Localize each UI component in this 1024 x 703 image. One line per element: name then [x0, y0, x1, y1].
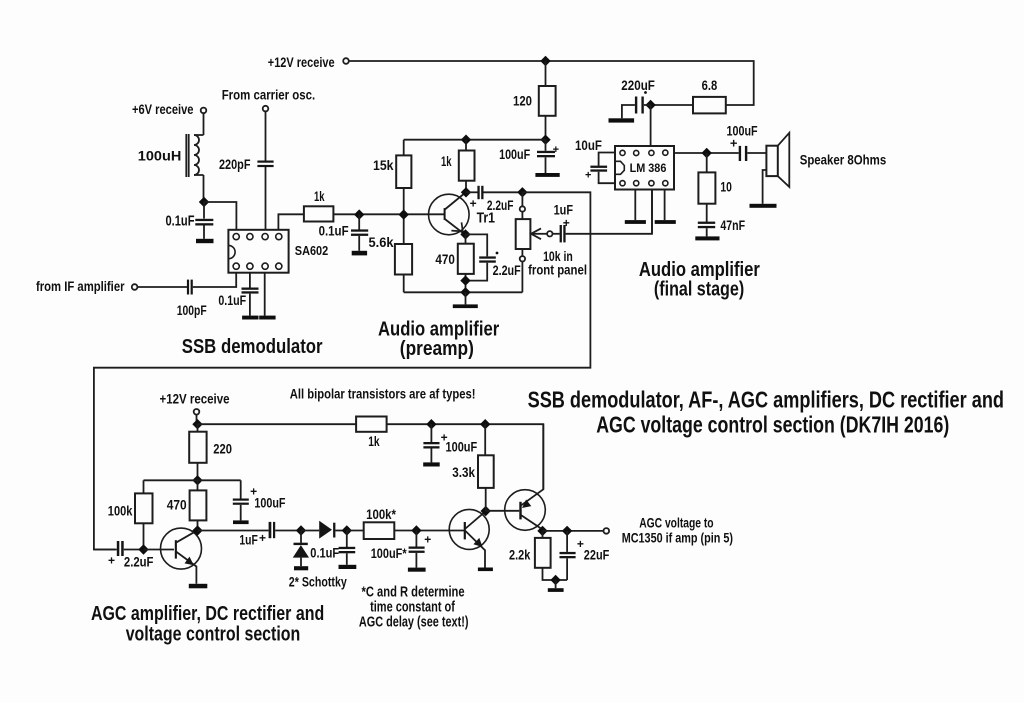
node junction Q2 collector: [481, 506, 491, 516]
svg-text:+: +: [108, 553, 115, 567]
capacitor 100uF* (AGC delay): [371, 531, 432, 568]
resistor 3.3k: [452, 424, 493, 511]
capacitor 100uF (AGC rail filter): [423, 424, 477, 462]
svg-text:0.1uF: 0.1uF: [218, 292, 246, 308]
node junction 100uF*: [411, 525, 421, 535]
svg-text:120: 120: [513, 92, 532, 108]
svg-text:100uF: 100uF: [446, 439, 478, 455]
svg-text:220uF: 220uF: [621, 77, 655, 93]
node junction preamp output: [517, 187, 527, 197]
svg-text:+: +: [585, 170, 591, 182]
svg-text:Speaker 8Ohms: Speaker 8Ohms: [800, 152, 887, 167]
node junction 100uF: [426, 419, 436, 429]
node junction 1k top: [461, 135, 471, 145]
capacitor 100uF (preamp supply filter): [499, 140, 559, 173]
wire +12V stem: [196, 415, 198, 425]
ground (AGC rail filter): [423, 462, 440, 466]
svg-text:SA602: SA602: [295, 243, 328, 258]
node collector junction: [461, 187, 471, 197]
capacitor 0.1uF (AGC det): [310, 531, 355, 565]
node junction D1 anode: [296, 525, 306, 535]
svg-text:LM 386: LM 386: [630, 163, 667, 175]
capacitor 2.2uF (AGC input): [94, 541, 154, 569]
wire bias rail: [144, 479, 241, 481]
wire 1k to preamp input: [333, 213, 444, 215]
wire junction down to LM386: [650, 105, 652, 146]
svg-text:3.3k: 3.3k: [452, 464, 475, 480]
svg-text:*C and R determine: *C and R determine: [362, 585, 465, 601]
capacitor 220uF: [621, 77, 655, 119]
svg-text:100k*: 100k*: [366, 506, 396, 522]
node junction LM386 pin6: [645, 100, 655, 110]
wire ground stem: [555, 580, 557, 588]
wire junction to SA602 pin 1: [204, 202, 236, 230]
resistor 6.8 (boucherot/feedback): [693, 77, 726, 114]
resistor 1k (AGC rail): [356, 417, 387, 450]
svg-text:100uF*: 100uF*: [371, 545, 407, 561]
wire ground stem: [465, 292, 467, 304]
capacitor 1uF (AGC coupling): [198, 522, 302, 548]
wire +6V to inductor: [203, 113, 205, 135]
ground (preamp input shunt): [352, 251, 367, 256]
node +12V receive terminal (AGC): [194, 409, 200, 415]
svg-text:1uF: 1uF: [554, 201, 574, 217]
node junction output: [702, 148, 712, 158]
wire AGC feed (preamp output to AGC input): [94, 192, 591, 549]
svg-text:(preamp): (preamp): [400, 337, 474, 360]
speaker 8 Ohms: [763, 133, 887, 204]
node junction Q1 collector: [192, 525, 202, 535]
resistor 10: [698, 153, 732, 222]
resistor 15k: [373, 140, 411, 244]
wire SA602 pin 3 to ground: [264, 273, 266, 316]
ground (D1): [294, 566, 308, 570]
transistor Tr1 (NPN preamp): [429, 193, 496, 235]
node junction base Q1: [138, 544, 148, 554]
svg-text:From carrier osc.: From carrier osc.: [222, 88, 316, 103]
svg-text:+: +: [470, 197, 477, 211]
svg-text:100uF: 100uF: [499, 146, 530, 162]
node junction ground rail: [460, 287, 470, 297]
node junction 470 bottom: [460, 275, 470, 285]
ground (0.1uF AGC): [339, 565, 357, 569]
node junction 22uF: [562, 526, 572, 536]
transistor Q1 (AGC amp NPN): [161, 528, 202, 584]
transistor Q3 (PNP control): [505, 424, 546, 531]
resistor 120: [513, 61, 556, 140]
ground (SA602 pin3): [259, 316, 275, 320]
svg-text:+12V receive: +12V receive: [160, 391, 230, 406]
wire LM386 pin ground stems: [635, 190, 664, 221]
svg-text:+12V receive: +12V receive: [268, 55, 335, 70]
resistor 1k (preamp collector): [441, 140, 475, 193]
node junction A (L / 0.1uF / SA602 pin1): [199, 197, 209, 207]
capacitor 220pF: [219, 156, 274, 172]
svg-text:2.2uF: 2.2uF: [493, 262, 521, 278]
resistor 470 (AGC collector): [167, 480, 207, 530]
ground (Q2 emitter): [478, 568, 493, 572]
svg-text:AGC voltage control section (D: AGC voltage control section (DK7IH 2016): [596, 412, 949, 438]
svg-text:SSB demodulator: SSB demodulator: [182, 335, 323, 358]
node junction +12V rail: [192, 419, 202, 429]
svg-text:220: 220: [213, 441, 232, 457]
wire LM386 output: [674, 152, 739, 154]
wire AGC output: [543, 530, 604, 532]
wire preamp ground rail: [404, 291, 523, 293]
potentiometer 10k volume: [516, 192, 587, 292]
op-amp U1 SA602 mixer IC: [228, 230, 328, 273]
op-amp U2 LM386 audio IC: [615, 146, 674, 190]
capacitor 47nF: [698, 217, 746, 236]
resistor 100k (feedback): [108, 480, 153, 549]
node junction D2 cathode: [342, 525, 352, 535]
ground (SA602 pin2): [242, 316, 258, 320]
svg-text:47nF: 47nF: [720, 217, 745, 233]
diode D2 Schottky (series): [301, 521, 347, 539]
svg-text:(final stage): (final stage): [654, 277, 744, 300]
ground (inductor decoupling): [196, 239, 214, 243]
capacitor 0.1uF (SA602 pin 2): [218, 273, 258, 316]
wire carrier osc to SA602 pin 3: [265, 111, 267, 229]
wire inductor to junction: [203, 175, 205, 202]
svg-text:5.6k: 5.6k: [369, 234, 394, 250]
svg-text:+6V receive: +6V receive: [132, 102, 194, 117]
wire +12V AGC rail: [198, 424, 544, 489]
diode D1 Schottky (shunt): [293, 531, 309, 567]
svg-text:time constant of: time constant of: [370, 600, 455, 616]
wire +12V rail top: [349, 61, 754, 105]
svg-text:+: +: [259, 531, 266, 545]
node junction base divider: [399, 209, 409, 219]
capacitor 100uF (speaker coupling): [727, 123, 768, 162]
ground (AGC out): [548, 588, 564, 592]
transistor Q2 (DC amp NPN): [449, 509, 489, 567]
node +6V receive terminal: [201, 108, 207, 114]
resistor 100k*: [347, 506, 464, 539]
ground (100uF*): [408, 568, 426, 572]
svg-text:100uH: 100uH: [138, 148, 182, 164]
svg-text:+: +: [250, 485, 257, 499]
capacitor 1uF (to LM386): [553, 190, 653, 243]
svg-text:2.2k: 2.2k: [509, 547, 530, 563]
node wiper terminal: [547, 231, 552, 236]
svg-text:1uF: 1uF: [239, 532, 258, 548]
capacitor 2.2uF (emitter bypass): [466, 234, 522, 280]
ground (Q1 emitter): [189, 584, 208, 589]
ground (LM386 left): [625, 220, 646, 224]
capacitor 0.1uF (decoupling at inductor): [166, 202, 214, 239]
node input junction (0.1uF shunt): [354, 209, 364, 219]
svg-text:10uF: 10uF: [575, 137, 602, 153]
svg-text:470: 470: [167, 496, 187, 512]
node AGC output terminal: [604, 528, 610, 534]
node junction 220 bottom: [192, 475, 202, 485]
svg-text:6.8: 6.8: [702, 77, 718, 93]
svg-text:1k: 1k: [314, 188, 325, 204]
svg-text:100k: 100k: [108, 502, 133, 518]
ground (47nF): [695, 236, 719, 240]
wire Q2 collector to Q3 base: [486, 510, 520, 512]
wire base Q1: [144, 549, 175, 551]
resistor 1k (SA602 output): [278, 188, 333, 230]
svg-text:AGC delay (see text!): AGC delay (see text!): [359, 615, 469, 631]
ground (bias filter): [233, 520, 249, 524]
node emitter junction: [460, 229, 470, 239]
node +12V receive terminal (top): [343, 58, 349, 64]
svg-text:1k: 1k: [441, 153, 452, 169]
svg-text:15k: 15k: [373, 157, 394, 173]
svg-text:2.2uF: 2.2uF: [487, 197, 514, 213]
node junction 120 top: [540, 56, 550, 66]
inductor 100uH: [138, 134, 204, 177]
wire LM386 input pin to 1uF: [651, 190, 653, 234]
svg-text:+: +: [441, 431, 448, 445]
svg-text:+: +: [553, 144, 559, 156]
ground (speaker): [750, 204, 777, 208]
node junction 120 bottom: [540, 135, 550, 145]
svg-text:470: 470: [435, 251, 455, 267]
resistor 220: [189, 424, 232, 480]
ground (LM386 right): [655, 220, 676, 224]
svg-text:voltage control section: voltage control section: [126, 622, 301, 645]
ground (preamp): [453, 304, 478, 308]
svg-text:+: +: [563, 216, 570, 230]
capacitor 2.2uF (collector coupling): [466, 186, 522, 213]
capacitor 10uF (gain set): [575, 137, 615, 183]
ground (preamp supply filter): [535, 173, 559, 177]
svg-text:2.2uF: 2.2uF: [124, 553, 154, 569]
svg-text:220pF: 220pF: [219, 156, 251, 172]
resistor 2.2k: [509, 531, 567, 580]
svg-text:100uF: 100uF: [254, 495, 285, 511]
node from IF amplifier terminal: [132, 284, 138, 290]
svg-text:AGC voltage to: AGC voltage to: [639, 515, 713, 531]
svg-text:from IF amplifier: from IF amplifier: [36, 279, 125, 294]
svg-text:10: 10: [720, 178, 732, 194]
wire 100pF to SA602 pin 1 (bottom): [193, 273, 236, 287]
capacitor 100pF: [177, 280, 207, 318]
svg-text:+: +: [424, 532, 431, 546]
svg-text:+: +: [730, 135, 738, 150]
svg-text:100pF: 100pF: [177, 302, 207, 318]
node junction ground 2.2k/22uF: [550, 575, 560, 585]
wire collector supply rail: [404, 139, 546, 141]
capacitor 0.1uF (preamp input shunt): [319, 215, 369, 251]
node junction AGC out left: [537, 526, 547, 536]
resistor 470 (emitter): [435, 234, 473, 292]
svg-text:0.1uF: 0.1uF: [166, 213, 195, 229]
svg-text:1k: 1k: [368, 433, 380, 449]
wire IF input: [137, 286, 187, 288]
svg-text:MC1350 if amp (pin 5): MC1350 if amp (pin 5): [622, 530, 733, 546]
capacitor 22uF: [560, 531, 610, 580]
svg-text:+: +: [577, 537, 584, 551]
svg-text:22uF: 22uF: [584, 547, 610, 563]
node junction 3.3k: [480, 419, 490, 429]
ground (220uF): [609, 118, 635, 122]
node From carrier osc. terminal: [263, 106, 269, 112]
svg-text:front panel: front panel: [528, 263, 587, 278]
svg-text:SSB demodulator, AF-, AGC ampl: SSB demodulator, AF-, AGC amplifiers, DC…: [528, 386, 1004, 412]
wire 6.8 to junction: [651, 104, 693, 106]
svg-text:2* Schottky: 2* Schottky: [289, 574, 347, 590]
resistor 5.6k: [369, 234, 413, 292]
svg-text:All bipolar transistors are af: All bipolar transistors are af types!: [290, 385, 476, 401]
svg-text:0.1uF: 0.1uF: [310, 545, 339, 561]
capacitor 100uF (bias filter): [233, 480, 286, 520]
svg-text:0.1uF: 0.1uF: [319, 223, 349, 239]
